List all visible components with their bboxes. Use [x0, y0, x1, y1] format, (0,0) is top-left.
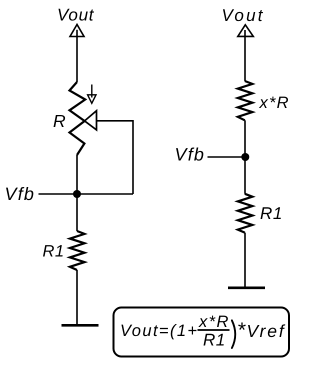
svg-text:x*R: x*R: [259, 94, 290, 112]
svg-text:Vfb: Vfb: [5, 184, 36, 204]
svg-text:R1: R1: [43, 243, 65, 261]
svg-text:Vout: Vout: [222, 6, 265, 25]
svg-text:Vref: Vref: [247, 321, 286, 341]
svg-text:Vout: Vout: [57, 6, 95, 25]
svg-text:R1: R1: [203, 331, 226, 350]
svg-text:*: *: [237, 319, 246, 342]
svg-text:R: R: [53, 111, 66, 131]
svg-text:x*R: x*R: [198, 313, 230, 331]
svg-text:Vout=(1+: Vout=(1+: [120, 322, 198, 340]
svg-text:Vfb: Vfb: [175, 145, 206, 165]
svg-text:R1: R1: [260, 204, 283, 223]
